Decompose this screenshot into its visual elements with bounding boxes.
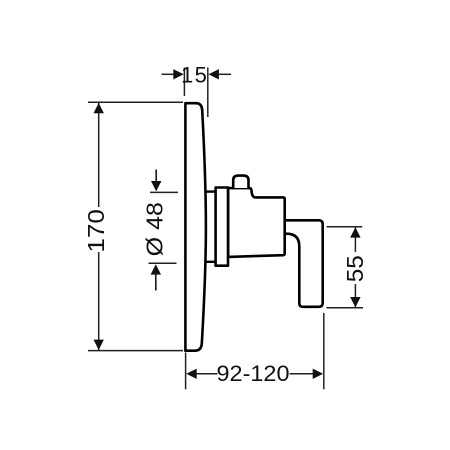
svg-text:170: 170: [83, 209, 109, 253]
dim 92-120: right extension line: [323, 313, 325, 389]
dim 48: top arrow tail: [155, 170, 157, 184]
dim 170: top extension line: [88, 101, 183, 103]
dim 92-120: dimension line right segment: [290, 373, 314, 375]
dim 15: left arrow (points right): [173, 69, 183, 79]
svg-text:92-120: 92-120: [217, 361, 290, 386]
dim 170: dimension line upper segment: [98, 103, 100, 207]
dim 170: bottom extension line: [88, 350, 183, 352]
escutcheon plate (side view): [185, 103, 206, 351]
dim 15: right leader line: [219, 73, 232, 75]
sleeve connector top (plate to flange): [205, 190, 216, 192]
dim 170: top arrow (points up): [94, 103, 104, 113]
dim 92-120: left extension line: [185, 353, 187, 390]
dim 15: right extension line: [207, 68, 209, 118]
dim 48: bottom arrow (points up): [151, 264, 161, 274]
svg-text:55: 55: [342, 255, 368, 282]
dim 55: dimension line lower segment: [354, 284, 356, 307]
button on top of cartridge: [233, 176, 248, 188]
dim 55: top extension line: [327, 226, 363, 228]
lever handle: [285, 220, 323, 306]
dim 55: top arrow (points up): [350, 227, 360, 237]
dim 48: top tick line: [150, 191, 178, 193]
dim 15: right arrow (points left): [209, 69, 219, 79]
dim 48: bottom arrow tail: [155, 273, 157, 291]
dim 170: bottom arrow (points down): [94, 340, 104, 350]
cartridge body: [228, 188, 285, 257]
flange (48mm sleeve front): [216, 188, 228, 266]
dim 55: bottom arrow (points down): [350, 297, 360, 307]
dim 15: left leader line: [162, 73, 175, 75]
dim 15: left extension line: [183, 68, 185, 97]
dim 92-120: dimension line left segment: [197, 373, 218, 375]
dim 92-120: right arrow (points right): [313, 369, 323, 379]
svg-text:Ø 48: Ø 48: [142, 202, 168, 256]
dim 55: dimension line upper segment: [354, 227, 356, 252]
dim 48: top arrow (points down): [151, 181, 161, 191]
dim 48: bottom tick line: [149, 262, 177, 264]
dim 55: bottom extension line: [326, 307, 363, 309]
svg-text:15: 15: [181, 63, 208, 88]
dim 170: dimension line lower segment: [98, 252, 100, 350]
dim 92-120: left arrow (points left): [186, 369, 196, 379]
sleeve connector bottom (plate to flange): [205, 261, 216, 263]
